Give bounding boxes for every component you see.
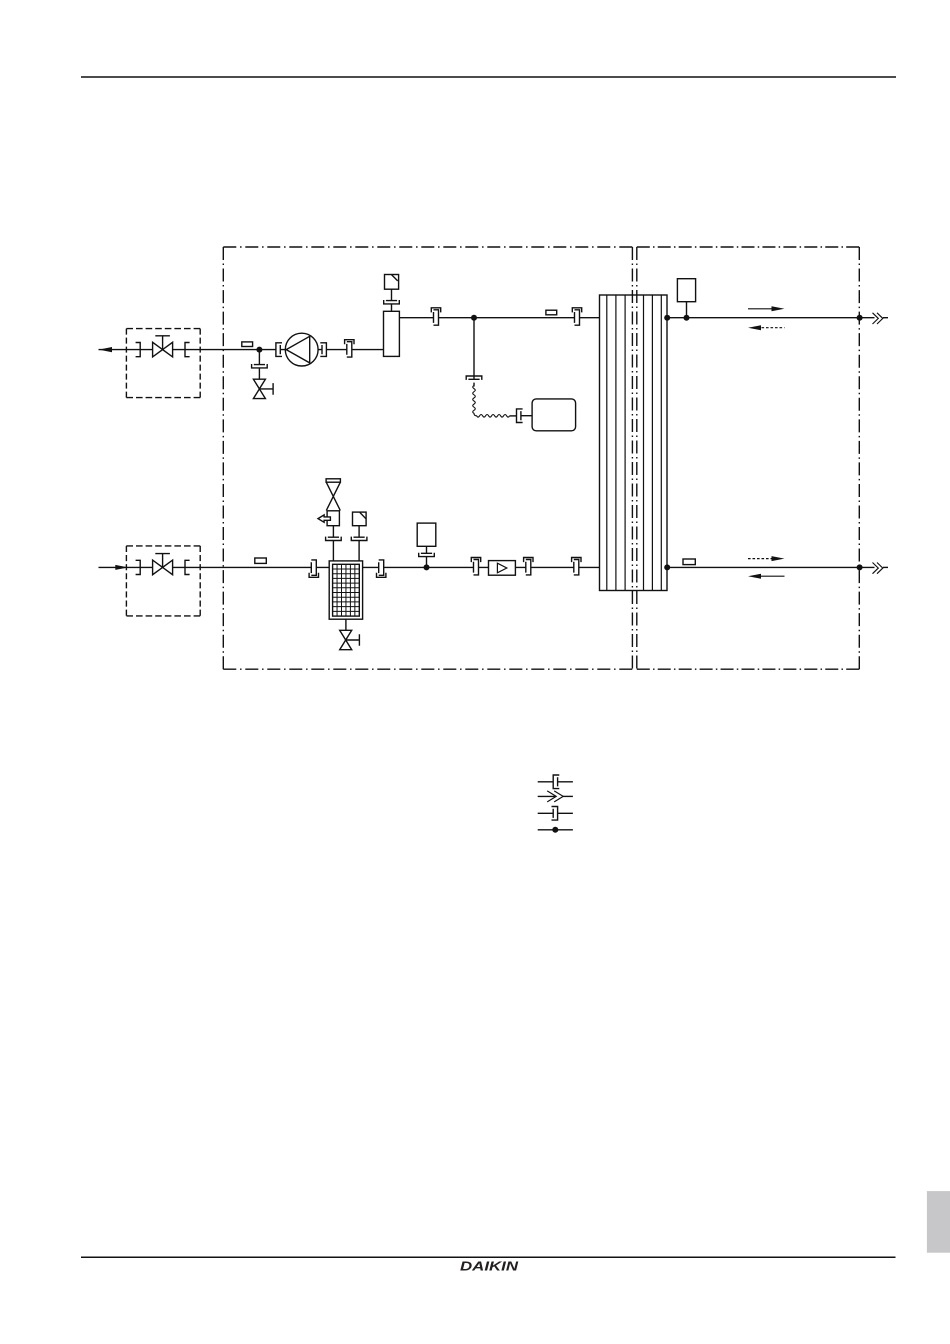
svg-text:DAIKIN: DAIKIN	[460, 1260, 519, 1274]
